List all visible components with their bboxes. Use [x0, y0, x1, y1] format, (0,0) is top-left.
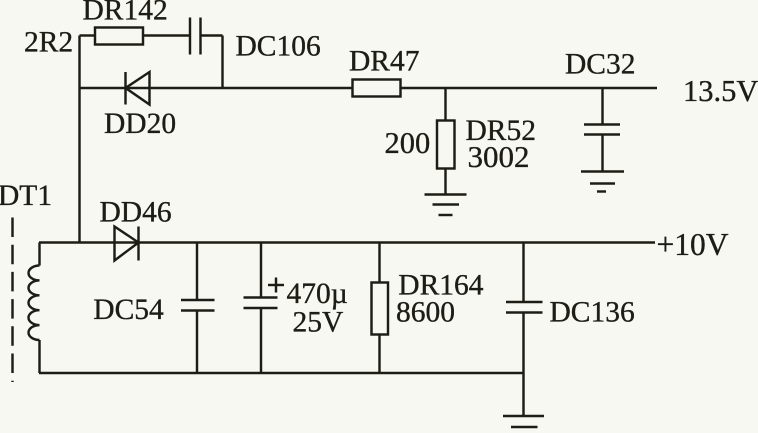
svg-text:8600: 8600	[396, 297, 455, 329]
svg-text:25V: 25V	[293, 307, 344, 339]
svg-text:200: 200	[385, 126, 431, 160]
svg-text:DC106: DC106	[236, 31, 321, 63]
svg-text:DR47: DR47	[349, 46, 419, 78]
svg-text:DC32: DC32	[565, 49, 635, 81]
svg-text:DC136: DC136	[550, 297, 635, 329]
svg-text:DT1: DT1	[0, 180, 52, 212]
svg-text:+10V: +10V	[657, 227, 729, 262]
svg-text:470µ: 470µ	[287, 278, 348, 310]
svg-text:DC54: DC54	[93, 294, 164, 326]
svg-text:DD46: DD46	[100, 196, 172, 228]
svg-text:3002: 3002	[468, 139, 530, 174]
svg-text:DR142: DR142	[83, 0, 168, 27]
svg-text:2R2: 2R2	[24, 27, 73, 59]
svg-text:DD20: DD20	[104, 108, 176, 140]
svg-text:13.5V: 13.5V	[683, 74, 758, 108]
